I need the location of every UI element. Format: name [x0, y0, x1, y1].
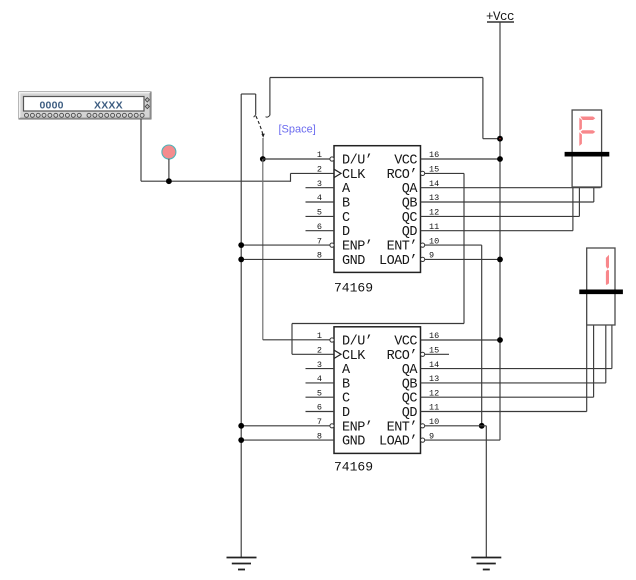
- wire U2 LOAD: [425, 439, 500, 441]
- U1 pin7 bubble: [330, 243, 334, 247]
- wire U1 VCC: [421, 158, 501, 160]
- svg-text:QC: QC: [402, 211, 418, 226]
- svg-text:GND: GND: [342, 254, 365, 269]
- wire U1 QC to D1: [421, 215, 580, 217]
- svg-text:3: 3: [317, 360, 322, 370]
- U1 pin9 bubble: [421, 257, 425, 261]
- Vcc rail vertical: [499, 22, 501, 440]
- U1 pin4 stub: [306, 201, 335, 203]
- wire D/U vertical: [262, 159, 264, 340]
- U2 pin10 bubble: [421, 424, 425, 428]
- wire U1 QA to D1: [421, 187, 601, 189]
- wire D/U to U1 pin1: [263, 158, 330, 160]
- svg-text:6: 6: [317, 403, 322, 413]
- switch S1: [241, 93, 256, 95]
- svg-text:0000: 0000: [40, 100, 64, 112]
- wire switch to Vcc rail: [270, 77, 483, 79]
- D1 segments F: [580, 117, 595, 121]
- wire CLK into U1 pin2: [291, 172, 335, 174]
- svg-text:QD: QD: [402, 225, 418, 240]
- svg-text:D/U’: D/U’: [342, 154, 372, 169]
- wire node to CLK step: [141, 180, 291, 182]
- wire U2 QB to D2: [421, 382, 606, 384]
- svg-text:QC: QC: [402, 392, 418, 407]
- junction ENT net: [479, 423, 485, 429]
- U2 pin1 bubble: [330, 338, 334, 342]
- ground GND2: [471, 557, 501, 559]
- junction gnd GND U2: [238, 437, 244, 443]
- wire Vcc join: [483, 138, 500, 140]
- U1 pin15 bubble: [421, 171, 425, 175]
- svg-text:QA: QA: [402, 363, 419, 378]
- wire U1 GND to gnd rail: [241, 258, 334, 260]
- svg-text:XXXX: XXXX: [94, 100, 123, 112]
- svg-text:74169: 74169: [334, 460, 373, 475]
- svg-text:15: 15: [429, 346, 439, 356]
- svg-text:2: 2: [317, 165, 322, 175]
- wire U2 GND to gnd rail: [241, 439, 334, 441]
- wire U2 ENT: [425, 425, 487, 427]
- svg-text:4: 4: [317, 193, 322, 203]
- U2 pin3 stub: [306, 368, 335, 370]
- svg-text:D/U’: D/U’: [342, 335, 372, 350]
- svg-text:3: 3: [317, 179, 322, 189]
- D1 base bar: [565, 152, 610, 157]
- wire U2 ENP to gnd rail: [241, 425, 330, 427]
- svg-text:ENT’: ENT’: [387, 420, 417, 435]
- wire U1 ENP to gnd rail: [241, 244, 330, 246]
- wire U1 QD to D1: [421, 230, 573, 232]
- ground rail left: [240, 94, 242, 558]
- wire U1 QB to D1: [421, 201, 594, 203]
- junction U1 LOAD rail: [497, 257, 503, 263]
- svg-text:1: 1: [317, 150, 322, 160]
- wire U1 LOAD: [425, 258, 500, 260]
- junction LED/clock: [166, 178, 172, 184]
- U2 pin4 stub: [306, 382, 335, 384]
- wire U2 QC to D2: [421, 396, 594, 398]
- LED probe P1: [162, 145, 176, 159]
- wire D/U to U2 pin1: [263, 339, 330, 341]
- junction gnd ENP U2: [238, 423, 244, 429]
- 7-segment display D1 box: [572, 110, 602, 187]
- U2 pin15 bubble: [421, 352, 425, 356]
- 7-segment display D2 box: [587, 248, 615, 325]
- IC U1 74169: [334, 146, 421, 273]
- svg-text:VCC: VCC: [394, 154, 417, 169]
- svg-text:5: 5: [317, 208, 322, 218]
- junction gnd ENP U1: [238, 242, 244, 248]
- svg-text:QD: QD: [402, 406, 418, 421]
- svg-text:CLK: CLK: [342, 349, 366, 364]
- wire U2 QD to D2: [421, 411, 587, 413]
- junction D/U node: [260, 156, 266, 162]
- U2 pin15 stub: [425, 353, 449, 355]
- svg-text:QA: QA: [402, 182, 419, 197]
- U1 pin1 bubble: [330, 157, 334, 161]
- U2 pin7 bubble: [330, 424, 334, 428]
- junction Vcc rail top: [497, 136, 503, 142]
- svg-text:B: B: [342, 377, 350, 392]
- svg-text:1: 1: [317, 331, 322, 341]
- svg-text:CLK: CLK: [342, 168, 366, 183]
- svg-text:2: 2: [317, 346, 322, 356]
- hex display meter M1: [19, 92, 151, 119]
- svg-text:6: 6: [317, 222, 322, 232]
- U2 pin5 stub: [306, 396, 335, 398]
- svg-text:C: C: [342, 392, 350, 407]
- junction U2 VCC rail: [497, 337, 503, 343]
- U1 pin5 stub: [306, 215, 335, 217]
- svg-text:ENT’: ENT’: [387, 240, 417, 255]
- junction gnd GND U1: [238, 257, 244, 263]
- svg-text:5: 5: [317, 388, 322, 398]
- svg-text:D: D: [342, 406, 350, 421]
- svg-text:LOAD’: LOAD’: [379, 435, 417, 450]
- ground GND1: [227, 557, 257, 559]
- svg-text:RCO’: RCO’: [387, 349, 417, 364]
- U2 pin9 bubble: [421, 438, 425, 442]
- wire U1 RCO to U2 CLK: [425, 172, 464, 174]
- wire U1 ENT down: [425, 244, 482, 246]
- svg-text:QB: QB: [402, 197, 418, 212]
- wire LED to clock net: [168, 159, 170, 181]
- wire U2 QA to D2: [421, 368, 612, 370]
- svg-text:ENP’: ENP’: [342, 420, 372, 435]
- wire meter to node: [140, 119, 142, 181]
- U1 pin6 stub: [306, 230, 335, 232]
- U1 pin10 bubble: [421, 243, 425, 247]
- svg-text:74169: 74169: [334, 281, 373, 296]
- svg-text:RCO’: RCO’: [387, 168, 417, 183]
- svg-text:C: C: [342, 211, 350, 226]
- svg-text:GND: GND: [342, 435, 365, 450]
- svg-text:LOAD’: LOAD’: [379, 254, 417, 269]
- junction U1 VCC rail: [497, 156, 503, 162]
- svg-text:D: D: [342, 225, 350, 240]
- svg-text:VCC: VCC: [394, 335, 417, 350]
- svg-text:QB: QB: [402, 377, 418, 392]
- svg-text:B: B: [342, 197, 350, 212]
- wire Vcc drop: [482, 78, 484, 139]
- IC U2 74169: [334, 327, 421, 454]
- D2 segments 1: [606, 255, 609, 269]
- wire U2 VCC: [421, 339, 501, 341]
- svg-text:ENP’: ENP’: [342, 240, 372, 255]
- svg-text:[Space]: [Space]: [279, 124, 316, 136]
- U1 pin3 stub: [306, 187, 335, 189]
- U2 pin6 stub: [306, 411, 335, 413]
- wire CLK step up: [290, 173, 292, 181]
- D2 base bar: [579, 289, 623, 294]
- svg-text:4: 4: [317, 374, 322, 384]
